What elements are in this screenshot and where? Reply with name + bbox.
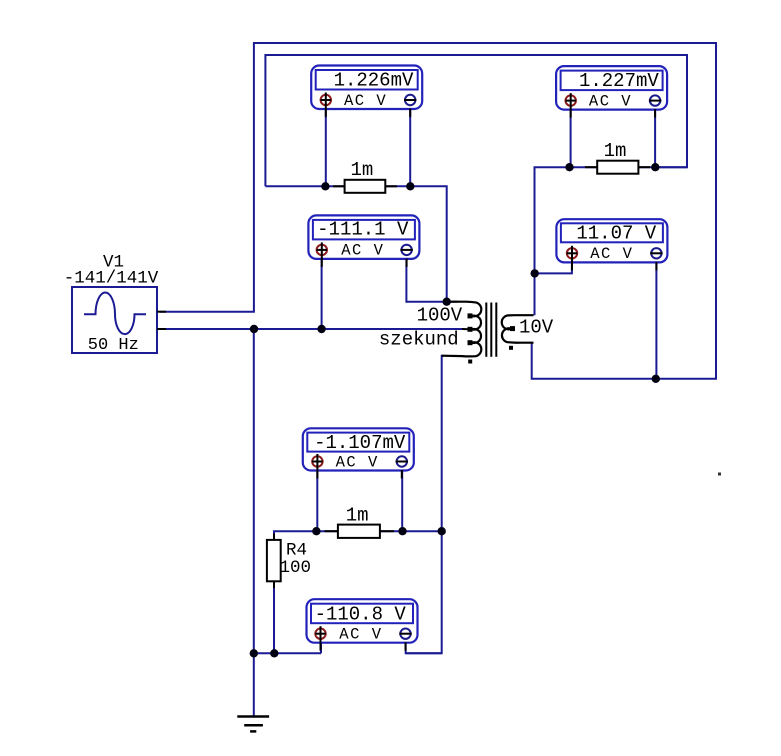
wire primary bottom vertical down to bottom meter row: [406, 356, 444, 654]
voltmeter M6: [307, 599, 418, 651]
svg-text:11.07 V: 11.07 V: [576, 222, 656, 244]
wire row1 right segment down to node at primary top: [385, 186, 446, 301]
wire meter M4 plus lead left to secondary-top vertical: [535, 263, 572, 273]
resistor R4 leads (black): [273, 534, 275, 540]
wire row3: R4 top stub, left segment: [274, 531, 338, 540]
wire row2 right segment: [638, 166, 687, 168]
svg-text:AC V: AC V: [336, 453, 379, 471]
node dot row3 mid: [398, 527, 406, 535]
svg-text:AC V: AC V: [344, 92, 387, 110]
svg-text:100V: 100V: [417, 304, 463, 326]
node dot bottom-right rail: [652, 375, 660, 383]
svg-text:50 Hz: 50 Hz: [88, 336, 139, 355]
wire row2 left segment and left vertical down to secondary top: [535, 167, 598, 315]
resistor leads (black) row3: [325, 530, 338, 532]
svg-text:1m: 1m: [351, 159, 374, 181]
wire row1 left segment: [265, 185, 344, 187]
wire meter M5 minus lead: [401, 470, 403, 532]
wire left vertical from junction down to ground junction: [253, 329, 255, 653]
node dot row3 right: [438, 527, 446, 535]
node dot row2 right: [651, 163, 659, 171]
node dot row3 left: [312, 527, 320, 535]
svg-text:AC V: AC V: [589, 92, 632, 110]
wire meter M1 minus lead: [409, 109, 411, 187]
wire meter M6 plus lead: [320, 643, 322, 654]
svg-text:1.226mV: 1.226mV: [334, 70, 414, 92]
svg-text:-110.8 V: -110.8 V: [315, 603, 407, 625]
wire row3 right segment: [380, 530, 442, 532]
voltage source V1: [72, 287, 166, 353]
node dot row1 left: [321, 182, 329, 190]
node dot row2 left: [565, 163, 573, 171]
resistor R4: [267, 540, 281, 581]
voltmeter M5: [303, 428, 414, 478]
wire meter M3 minus lead to primary-top node: [406, 259, 446, 302]
ground: [237, 717, 269, 732]
wire bottom horizontal: [254, 652, 321, 654]
wire inner top rail: first 1m row left end up, across, down to second 1m row right end: [265, 55, 687, 186]
resistor 1m (row2): [597, 161, 638, 174]
node dot secondary top tee: [531, 269, 539, 277]
wire outer loop: V1 top terminal up over top rail, right vertical, bottom-right rail to secondary bottom: [160, 43, 716, 379]
wire main horizontal V1 bottom terminal to transformer center tap: [160, 328, 464, 330]
svg-text:AC V: AC V: [341, 242, 384, 260]
svg-text:AC V: AC V: [590, 245, 633, 263]
resistor 1m (row3): [338, 525, 380, 538]
wire meter M5 plus lead: [316, 470, 318, 532]
svg-text:10V: 10V: [519, 316, 554, 338]
transformer T1 secondary winding: [502, 315, 534, 343]
resistor 1m (row1): [345, 180, 386, 193]
svg-text:1m: 1m: [346, 505, 369, 527]
resistor leads (black) row2: [585, 166, 597, 168]
svg-text:1m: 1m: [604, 140, 627, 162]
transformer center tap stub: [462, 328, 470, 330]
node dot primary top: [443, 298, 451, 306]
voltmeter M1: [311, 66, 422, 118]
node dot V1 bottom tee: [250, 325, 258, 333]
wire R4 bottom to bottom horizontal: [273, 581, 275, 653]
voltmeter M4: [556, 219, 667, 270]
svg-text:szekund: szekund: [379, 328, 459, 350]
svg-text:1.227mV: 1.227mV: [579, 70, 659, 92]
stray mark: [718, 473, 721, 476]
svg-text:100: 100: [280, 558, 312, 578]
wire meter M4 minus lead down to bottom-right rail: [655, 263, 657, 379]
wire node at primary top to winding: [447, 301, 458, 303]
node dot row1 right: [406, 182, 414, 190]
node dot R4 bottom tee: [270, 649, 278, 657]
svg-text:-111.1 V: -111.1 V: [317, 219, 409, 241]
svg-text:-1.107mV: -1.107mV: [314, 432, 406, 454]
transformer secondary cusp pin: [510, 326, 515, 331]
wire meter M6 minus lead: [406, 643, 442, 654]
transformer primary cusp pins: [468, 313, 473, 345]
svg-text:-141/141V: -141/141V: [64, 268, 159, 288]
node dot ground tee: [250, 649, 258, 657]
wire meter M2 minus lead: [654, 110, 656, 167]
node dot M3 plus tee: [317, 325, 325, 333]
transformer primary phase dot: [468, 360, 472, 364]
voltmeter M2: [556, 66, 667, 118]
wire meter M2 plus lead: [570, 110, 572, 167]
transformer secondary phase dot: [509, 346, 513, 350]
voltmeter M3: [308, 215, 419, 267]
wire ground vertical: [253, 653, 255, 716]
transformer core: [486, 303, 496, 357]
wire meter M3 plus lead down to main horizontal: [321, 259, 323, 330]
resistor leads (black) row1: [333, 185, 345, 187]
transformer T1 primary winding: [442, 302, 482, 357]
wire meter M1 plus lead: [325, 109, 327, 187]
svg-text:AC V: AC V: [339, 626, 382, 644]
